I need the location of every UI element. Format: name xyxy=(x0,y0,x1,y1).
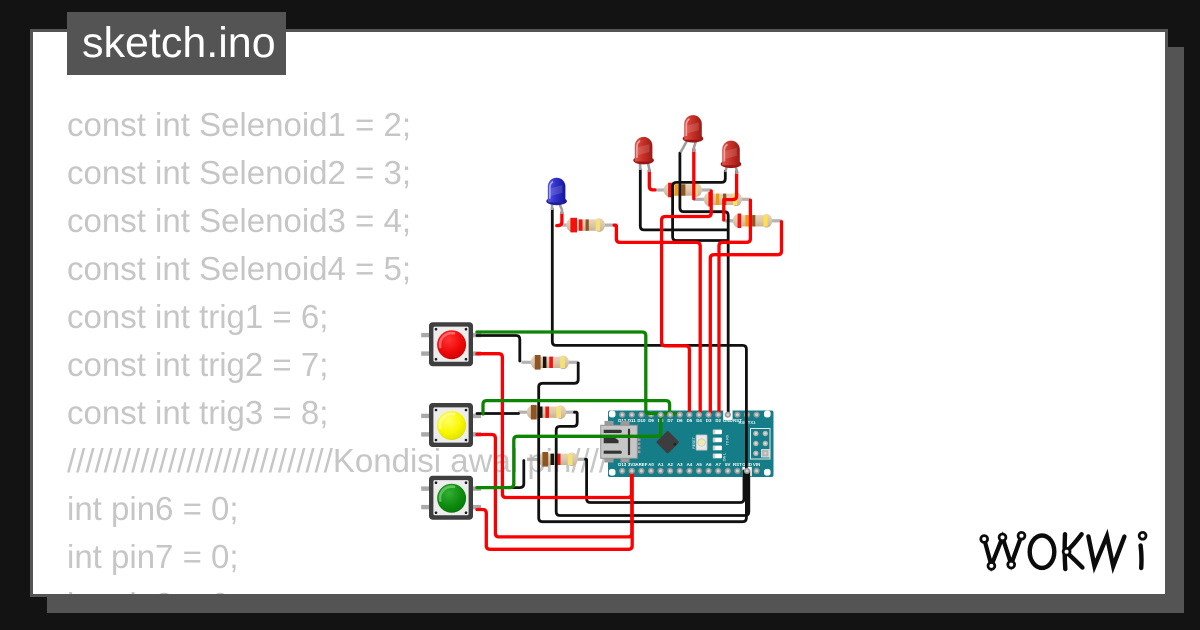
svg-text:TX RX: TX RX xyxy=(726,434,730,445)
logo letter i xyxy=(1138,546,1143,569)
svg-text:D3: D3 xyxy=(706,418,712,423)
wire: LED B anode to R3 xyxy=(692,150,695,199)
svg-text:D5: D5 xyxy=(687,418,693,423)
svg-text:D2: D2 xyxy=(715,418,721,423)
svg-text:5V: 5V xyxy=(725,462,730,467)
GND pad highlight bottom row xyxy=(742,467,751,476)
wire: red button to R6 xyxy=(477,336,520,362)
svg-text:D6: D6 xyxy=(677,418,683,423)
svg-text:RESET: RESET xyxy=(692,437,696,448)
resistor R2 (LED A series) xyxy=(654,183,711,198)
SMD leds column xyxy=(713,430,722,459)
mounting hole bottom-left xyxy=(609,469,616,476)
wire: R4 to nano D3 xyxy=(710,222,781,415)
resistor R5 (blue LED series) xyxy=(558,218,615,233)
wire: LED A cathode to GND bus xyxy=(640,169,727,230)
USB connector J1 xyxy=(601,421,641,463)
svg-text:A5: A5 xyxy=(696,462,702,467)
svg-text:VIN: VIN xyxy=(753,462,760,467)
wire: green button to R8 xyxy=(477,461,524,488)
svg-text:A7: A7 xyxy=(715,462,721,467)
svg-text:A3: A3 xyxy=(677,462,683,467)
svg-text:D9: D9 xyxy=(648,418,654,423)
resistor R6 (red button) xyxy=(522,355,579,370)
pushbutton SW1 (red) xyxy=(421,322,481,366)
bottom pin row D13..VIN xyxy=(618,462,760,474)
LED1 (blue) xyxy=(546,178,567,214)
svg-text:GND: GND xyxy=(723,418,733,423)
wire: blue LED cathode to nano GND (bottom) xyxy=(552,209,746,471)
LED4 (red C) xyxy=(721,141,742,174)
mounting hole top-right xyxy=(764,411,771,418)
svg-text:A0: A0 xyxy=(648,462,654,467)
wire: R6 to nano GND (bottom) xyxy=(539,363,747,522)
svg-text:AREF: AREF xyxy=(635,462,647,467)
svg-text:A4: A4 xyxy=(687,462,693,467)
resistor R4 (LED C series) xyxy=(725,214,782,229)
wire: blue LED anode to R5 xyxy=(557,213,562,226)
logo letter W1 xyxy=(984,536,1021,566)
logo letter W2 xyxy=(1088,536,1124,566)
top pin row D12..TX1 xyxy=(618,412,760,423)
crystal chip (diamond) xyxy=(656,430,679,453)
svg-text:D7: D7 xyxy=(667,418,673,423)
WOKWI logo xyxy=(981,532,1146,569)
LED3 (red A) xyxy=(633,137,654,172)
wire: yellow button to R7 xyxy=(477,412,519,415)
wire: red button to nano D7 xyxy=(477,332,670,414)
pushbutton SW2 (yellow) xyxy=(421,403,481,447)
svg-text:D13: D13 xyxy=(618,462,627,467)
svg-text:D4: D4 xyxy=(696,418,702,423)
wire: yellow button to nano 3V3 xyxy=(477,435,632,537)
svg-text:RST: RST xyxy=(733,462,742,467)
resistor R8 (green button) xyxy=(527,452,587,467)
Arduino Nano U1 xyxy=(601,411,774,478)
svg-text:D10: D10 xyxy=(637,418,646,423)
wire: R2 to nano D5 xyxy=(662,191,712,414)
wire: green button to nano 3V3 xyxy=(477,471,632,549)
GND pad highlight top row xyxy=(723,411,732,420)
connected pin rings overdraw xyxy=(629,412,750,474)
wire: LED A anode to R2 xyxy=(649,171,655,190)
logo letter O xyxy=(1030,536,1055,568)
pushbutton SW3 (green) xyxy=(421,476,481,520)
resistor R7 (yellow button) xyxy=(518,405,575,420)
LED2 (red B) xyxy=(681,115,704,152)
svg-text:A1: A1 xyxy=(658,462,664,467)
wire: yellow button to nano D6 xyxy=(483,401,680,414)
wire: green button to nano D8 xyxy=(477,416,661,488)
resistor R3 (LED B series) xyxy=(694,192,751,207)
mounting hole top-left xyxy=(609,411,616,418)
mounting hole bottom-right xyxy=(764,469,771,476)
svg-text:A6: A6 xyxy=(706,462,712,467)
wire: red button to nano 3V3 xyxy=(477,354,632,498)
wire: LED C anode to R4 xyxy=(724,172,737,221)
wire: R7 to nano GND (bottom) xyxy=(556,412,749,515)
wire: LED B cathode to nano GND (top) xyxy=(680,153,728,415)
logo letter K xyxy=(1062,534,1067,569)
svg-text:ON L: ON L xyxy=(723,453,727,461)
wire: R3 to nano D2 xyxy=(719,200,750,414)
wire: R8 to nano GND (bottom) xyxy=(586,459,745,502)
reset button xyxy=(692,435,707,450)
wire: LED C cathode jog to GND bus xyxy=(673,171,727,241)
svg-text:A2: A2 xyxy=(667,462,673,467)
ICSP header xyxy=(751,429,771,460)
wire: R5 to nano D4 xyxy=(614,225,700,414)
